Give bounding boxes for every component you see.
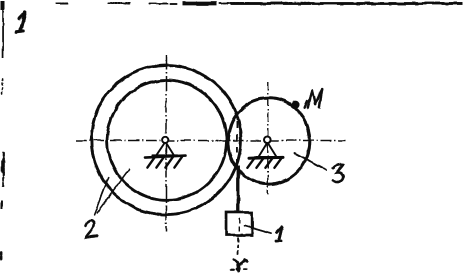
vertical centerline of pulley 2 — [165, 54, 167, 231]
label 1 (load) — [275, 227, 281, 241]
leader lines to label 2 (both rims) — [94, 177, 108, 215]
vertical centerline of pulley 3 — [266, 81, 268, 194]
pin O2 circle — [264, 137, 271, 144]
leader line to label 3 — [294, 153, 326, 170]
point M dot on pulley 3 — [291, 100, 299, 108]
pulley 2 outer rim — [91, 65, 241, 215]
left frame border — [0, 0, 5, 261]
figure number 1 (top-left) — [16, 12, 24, 32]
rope from pulley 3 to load 1 — [236, 165, 239, 213]
leader line to label 1 (load) — [244, 225, 271, 233]
hidden dashed line between rim crossings — [235, 121, 237, 161]
label M — [304, 89, 322, 108]
load 1 block — [226, 212, 252, 235]
dashed x-axis below block — [237, 237, 239, 258]
label 2 — [85, 220, 97, 237]
pin support O2 (pulley 3): ground hatch — [247, 157, 283, 167]
pulley 2 inner rim — [107, 80, 226, 199]
horizontal centerline through both pulley centers — [75, 139, 345, 141]
pin O1 circle — [162, 137, 168, 143]
label x (axis) — [231, 259, 247, 269]
dashed axis inside block — [238, 218, 240, 231]
label 3 — [332, 164, 343, 181]
pin support O1 (pulley 2): ground hatch — [145, 156, 186, 168]
top frame border — [56, 1, 462, 4]
pin support O2: triangle — [256, 143, 279, 157]
pulley 3 rim — [227, 98, 308, 184]
pin support O1: triangle — [152, 143, 177, 156]
